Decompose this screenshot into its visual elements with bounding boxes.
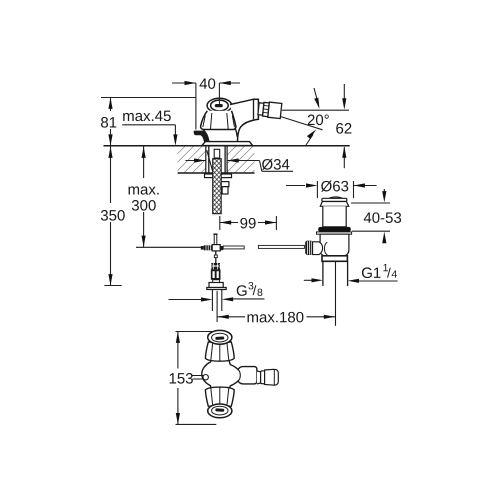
drain seal black [318,227,351,232]
spout head face [253,99,255,119]
cross pin vertical [214,234,217,244]
top view body [202,361,257,391]
pin below block [215,251,217,264]
drain flange flare [320,202,349,207]
dim G1 1/4 [304,279,398,282]
dim 81-350 arrows [108,98,112,286]
dim max180 [217,291,335,322]
dim 81-350 vertical line [104,98,121,286]
faucet handle cap [207,98,232,113]
dim Ø34 [186,161,294,172]
deck hole edges [206,146,227,173]
tailpipe centerline [335,261,337,326]
drain seal washer [317,232,352,234]
label tG8: 8 [257,289,262,296]
dim 62 [343,84,345,168]
20deg leader arrow bottom [306,135,313,146]
cross fitting block [212,245,220,251]
label t40: 40 [200,78,216,89]
ref line handle top [101,97,196,99]
handle slot [215,104,223,107]
skirt flutes [203,113,235,129]
dim 40-53 bottom arrow [383,236,385,243]
dim 40-53 top arrow [383,189,385,196]
dim 40 line [172,83,240,130]
lever connector [313,242,323,255]
top view top handle cap [208,330,232,344]
label to63: Ø63 [321,181,348,192]
top view popup rod [193,376,204,380]
aerator assembly tilted [258,101,282,118]
label tG1s: / [387,268,391,278]
dim G3/8 arrows [169,298,265,301]
max.45 leader [122,125,175,138]
aerator ring [263,102,270,116]
drain flange dome [328,197,344,200]
handle skirt [201,111,236,130]
spout arm [230,99,258,141]
drain lower body [320,234,349,256]
handle axis through cap [218,99,220,105]
label tG: G [237,285,247,296]
153 vertical [177,332,179,425]
label t20: 20° [308,115,329,126]
label tmax: max. [129,186,159,194]
label tG11: 1 [383,264,388,271]
popup rod mid segment [223,246,244,249]
top view bottom handle flutes [205,387,234,406]
top view body arm lines [238,370,240,382]
top view popup rod ball [203,375,208,380]
shank outer through deck [209,146,225,173]
20deg angled line [281,117,323,130]
drain bottom plate [322,256,347,261]
angled rod in hole [207,150,213,171]
top view bottom handle cap [208,404,232,418]
dim 40-53 top ref [351,202,390,204]
dim 99 [220,216,277,230]
label tmax45: max.45 [123,111,171,121]
check valve knurl top [211,263,220,269]
label t153: 153 [170,373,193,384]
dim 40-53 bottom ref [352,230,390,232]
deck top line [104,145,350,147]
popup rod guide in shank [214,149,220,158]
supply pipe [212,290,221,312]
washer under deck [205,174,232,178]
dim max300 [143,147,145,248]
dim 40 arrows [185,81,231,85]
supply fitting nut [221,182,229,187]
label t99: 99 [240,218,255,229]
aerator body [268,102,282,118]
label tG14: 4 [392,270,397,277]
nut flange [207,288,226,290]
label tG1: G1 [362,267,381,278]
drain upper body [323,206,346,227]
label t300: 300 [132,200,156,211]
drain ext lines Ø63 [317,181,353,198]
faucet neck [203,128,237,142]
drain flange cap [322,198,347,201]
label tG3: 3 [248,282,253,289]
hex nut [209,283,223,288]
clamp screw knurl [204,245,212,250]
deck hatch left [178,146,206,172]
top view spout neck [257,371,261,384]
lever port arc [324,242,327,255]
label t81: 81 [101,117,116,128]
base escutcheon [202,142,253,146]
label to34: Ø34 [262,159,289,170]
check valve neck [213,280,220,283]
label G3/8 [0,0,1,1]
tailpipe [323,261,348,286]
cross fitting right collar [220,246,223,250]
label t350: 350 [101,210,125,221]
aerator ridges [263,105,269,113]
threaded shank crosshatch [213,159,222,214]
20deg leader arrow top [314,88,318,104]
153 ext bottom [176,423,217,425]
deck bottom line [178,172,255,174]
label tGs: / [253,285,257,295]
check valve body [211,269,221,279]
lever ball nut [305,241,313,255]
popup rod left segment [136,246,201,248]
top view spout ring [261,371,265,384]
20deg ref line [282,109,349,111]
deck hatch right [227,146,254,172]
popup rod right segment [258,245,304,248]
popup hook lever [194,131,209,142]
clamp screw tip [201,246,204,250]
top view: 153 ext top [176,331,215,333]
supply fitting socket [222,187,228,194]
connector [258,103,264,115]
dim Ø63 [286,185,377,187]
top view top handle flutes [205,342,234,361]
label tmax180: max.180 [248,312,304,323]
label t62: 62 [336,123,351,134]
top view aerator body [265,369,279,385]
label t4053: 40-53 [364,212,401,223]
